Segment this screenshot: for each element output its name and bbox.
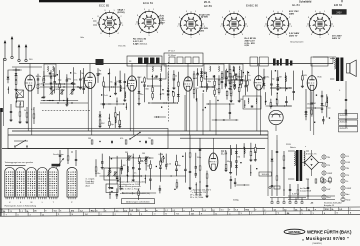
switch side parts — [59, 148, 78, 166]
tube socket top view Rö5 EL84 — [265, 11, 291, 35]
component chain lower x=8 — [8, 87, 9, 94]
tuner filter box 1 — [127, 56, 162, 66]
svg-text:3: 3 — [333, 26, 334, 28]
junction mark — [110, 96, 111, 97]
tube socket top view Rö2 ECH81 — [136, 9, 162, 33]
junction mark — [236, 78, 237, 79]
junction mark — [42, 97, 43, 98]
svg-text:4: 4 — [199, 34, 200, 36]
component chain x=16 — [15, 68, 18, 91]
bandfilter Fi1 — [44, 64, 56, 76]
svg-text:6: 6 — [225, 34, 226, 36]
component chain x=194 — [193, 71, 195, 99]
stage1 dashed line — [42, 110, 90, 112]
wire rung y=84 — [55, 83, 64, 85]
wire rung y=88 — [270, 87, 291, 89]
wire cathode Rö1b ECC85 — [87, 89, 89, 132]
svg-text:5: 5 — [319, 37, 320, 39]
svg-text:6,3V~: 6,3V~ — [292, 194, 298, 196]
svg-text:5: 5 — [148, 35, 149, 37]
component chain x=161 — [159, 73, 162, 100]
svg-text:5: 5 — [233, 37, 234, 39]
svg-text:70V: 70V — [232, 82, 236, 84]
tube Rö1b ECC85 — [84, 73, 95, 89]
svg-text:WERKE FÜRTH (BAY.): WERKE FÜRTH (BAY.) — [307, 229, 352, 234]
component chain x=122 — [120, 160, 123, 175]
chassis dashed divider — [168, 62, 170, 122]
wire cathode Rö3 EF89 — [185, 91, 187, 131]
FM osc box — [16, 101, 24, 107]
svg-text:6: 6 — [100, 33, 101, 35]
filter cap 1 — [321, 178, 324, 182]
component chain x=150 — [149, 160, 152, 189]
svg-text:9: 9 — [273, 11, 274, 13]
component chain x=174 — [172, 70, 175, 89]
svg-text:(EC92): (EC92) — [118, 12, 125, 14]
svg-text:90V: 90V — [195, 88, 199, 90]
bandfilter Fi4 — [229, 64, 243, 77]
terminal B7 Ant — [341, 192, 350, 196]
component chain lower x=285 — [285, 96, 288, 106]
bandfilter Fi2 — [147, 64, 166, 79]
component chain x=278 — [276, 70, 279, 91]
svg-text:2M: 2M — [126, 85, 129, 87]
antenna input 2 — [11, 36, 14, 59]
junction mark — [71, 83, 72, 84]
junction mark — [329, 117, 330, 118]
det box 2 — [259, 57, 268, 66]
component chain x=115 — [114, 107, 116, 128]
svg-text:Drucktasten: Drucktasten — [53, 153, 64, 156]
junction mark — [120, 90, 121, 91]
junction mark — [162, 89, 163, 90]
svg-text:Gesamtansicht: Gesamtansicht — [290, 40, 304, 43]
component index band — [0, 207, 360, 216]
svg-text:8: 8 — [179, 17, 180, 19]
svg-text:250V 7V: 250V 7V — [289, 35, 298, 37]
wire rung y=87 — [201, 86, 216, 88]
junction mark — [121, 188, 122, 189]
top right tick — [341, 0, 343, 2]
svg-text:6: 6 — [140, 32, 141, 34]
wire EL84 anode — [212, 138, 214, 153]
pin note block g — [289, 11, 299, 15]
svg-text:2M: 2M — [161, 93, 164, 95]
svg-text:1: 1 — [195, 11, 196, 13]
psu labels — [286, 144, 322, 161]
svg-text:7: 7 — [264, 26, 265, 28]
top supply bus — [19, 63, 333, 65]
terminal B8 Netz — [341, 197, 351, 201]
svg-text:2: 2 — [331, 17, 332, 19]
wire grid Rö3 EF89 — [189, 91, 191, 135]
svg-text:9: 9 — [315, 11, 316, 13]
junction mark — [240, 162, 241, 163]
DIN socket A6 Erd — [322, 195, 331, 199]
svg-text:8: 8 — [97, 16, 98, 18]
junction mark — [256, 168, 257, 169]
svg-text:UKW: UKW — [327, 173, 332, 175]
svg-text:0,5M: 0,5M — [159, 154, 164, 156]
svg-text:4: 4 — [286, 34, 287, 36]
pot box 2 parts — [111, 187, 113, 188]
component chain x=226 — [225, 69, 228, 86]
component chain lower x=278 — [276, 93, 278, 106]
svg-text:2M: 2M — [313, 103, 316, 105]
pin note block c — [133, 39, 147, 46]
heater tap row — [270, 198, 306, 204]
component chain x=110 — [108, 156, 111, 189]
svg-text:248V: 248V — [289, 12, 295, 15]
component chain x=166 — [165, 154, 168, 170]
junction mark — [141, 82, 142, 83]
wire rung y=104 — [206, 103, 234, 105]
component chain x=178 — [177, 72, 180, 102]
top edge scan bar — [39, 0, 105, 2]
svg-text:EL 84: EL 84 — [292, 3, 300, 7]
component chain x=185 — [184, 152, 187, 182]
svg-text:90V: 90V — [56, 89, 60, 91]
tube Rö5 EL84 — [209, 153, 218, 171]
component chain x=100 — [99, 111, 102, 128]
EL84 label — [221, 150, 228, 156]
svg-text:UKW: UKW — [346, 188, 351, 190]
wire rung y=80 — [231, 79, 244, 81]
pot treble — [159, 154, 165, 162]
output bus 1 — [180, 134, 268, 136]
terminal B3 TA — [341, 166, 349, 170]
pin note block j — [332, 36, 342, 40]
component chain x=226 — [224, 70, 227, 88]
svg-text:245V 1V: 245V 1V — [332, 37, 341, 40]
antenna input 4 — [25, 44, 28, 62]
FM mixer box — [16, 90, 24, 98]
junction mark — [72, 82, 73, 83]
svg-text:70V: 70V — [154, 78, 158, 80]
wire rung y=86 — [147, 85, 161, 87]
junction mark — [233, 70, 234, 71]
antenna input 1 — [4, 40, 7, 61]
component chain lower x=196 — [196, 182, 197, 195]
junction mark — [70, 72, 71, 73]
svg-text:8: 8 — [137, 15, 138, 17]
ratio detector filter — [243, 96, 261, 109]
junction mark — [174, 189, 175, 190]
left edge line — [0, 108, 2, 216]
junction mark — [230, 95, 231, 96]
junction mark — [108, 73, 109, 74]
svg-text:7: 7 — [135, 24, 136, 26]
filter cap 2 — [329, 178, 332, 182]
component chain x=235 — [233, 67, 236, 90]
svg-text:2: 2 — [245, 17, 246, 19]
svg-text:7: 7 — [177, 26, 178, 28]
long mid bus 1 — [12, 130, 268, 132]
wire anode Rö2 ECH81 — [131, 64, 133, 76]
tuner filter box 2 — [164, 53, 203, 66]
component chain x=73 — [72, 67, 75, 91]
wire rung y=70 — [8, 69, 16, 71]
svg-text:Änderungen vorbehalten: Änderungen vorbehalten — [126, 201, 150, 204]
svg-text:225V: 225V — [199, 31, 205, 33]
component chain x=327 — [326, 94, 328, 117]
svg-text:ECC 85: ECC 85 — [119, 46, 127, 48]
component chain lower x=139 — [138, 189, 140, 201]
component chain x=177 — [175, 155, 178, 176]
maker logo GRUNDIG — [284, 229, 305, 234]
junction mark — [117, 180, 118, 181]
fuse — [269, 186, 280, 189]
wire anode Rö4a EABC80 — [258, 64, 260, 76]
wire rung y=176 — [135, 175, 186, 177]
svg-text:( 5008/59 ): ( 5008/59 ) — [312, 243, 322, 245]
component chain lower x=231 — [230, 176, 233, 189]
junction mark — [163, 156, 164, 157]
speaker LS — [347, 60, 357, 77]
svg-text:„ Musikgerät 97/60 “: „ Musikgerät 97/60 “ — [302, 236, 349, 241]
svg-text:0,9V: 0,9V — [245, 45, 250, 47]
antenna input 3 — [18, 44, 21, 62]
pin note block b — [160, 16, 166, 25]
svg-text:12k: 12k — [82, 78, 85, 80]
stage1 pot row — [50, 90, 75, 95]
component chain lower x=122 — [120, 177, 121, 190]
socket pin numbers Rö3 — [177, 11, 204, 39]
svg-text:ECH 81: ECH 81 — [143, 1, 154, 5]
svg-text:ECC 85: ECC 85 — [99, 4, 110, 8]
svg-text:EM 84: EM 84 — [334, 3, 343, 7]
component chain x=98 — [97, 68, 100, 83]
component chain x=117 — [116, 156, 119, 184]
speaker area parts — [345, 100, 347, 121]
svg-text:Ausgabe 59: Ausgabe 59 — [324, 204, 334, 207]
wire grid Rö1b ECC85 — [91, 89, 93, 136]
left note block — [86, 179, 96, 188]
stage1 hrail a — [40, 86, 90, 87]
wire grid Rö2 ECH81 — [133, 91, 135, 135]
note paragraph — [119, 181, 146, 191]
pin note block i — [332, 9, 347, 14]
component chain lower x=117 — [116, 188, 119, 199]
junction mark — [286, 88, 287, 89]
socket pin numbers Rö4 — [220, 11, 247, 39]
component chain x=120 — [118, 111, 121, 128]
wire rung y=84 — [45, 83, 76, 85]
wire cathode Rö6 EM84 — [309, 90, 311, 131]
tube socket top view Rö4 EABC80 — [221, 11, 247, 35]
component chain lower x=236 — [234, 178, 237, 187]
DIN socket A2 TB — [322, 163, 331, 167]
svg-text:2M: 2M — [279, 76, 282, 78]
svg-text:kHz: kHz — [81, 37, 84, 39]
svg-text:8: 8 — [222, 17, 223, 19]
svg-text:*: * — [305, 146, 306, 149]
wire anode Rö3 EF89 — [187, 64, 189, 77]
junction mark — [203, 90, 204, 91]
junction mark — [161, 107, 162, 108]
legend star lines — [190, 189, 212, 200]
svg-text:u: u — [183, 210, 184, 212]
det cluster 1 — [273, 59, 282, 66]
component chain x=160 — [159, 153, 162, 182]
junction mark — [43, 84, 44, 85]
junction mark — [243, 72, 244, 73]
junction mark — [265, 101, 266, 102]
component chain x=196 — [195, 153, 198, 178]
junction mark — [314, 122, 315, 123]
phono switch contact — [14, 140, 28, 147]
component chain x=51 — [50, 70, 53, 90]
phono small labels — [88, 138, 151, 140]
svg-text:304.005: 304.005 — [262, 174, 270, 176]
junction mark — [276, 99, 277, 100]
em84 box — [311, 57, 328, 66]
junction mark — [152, 76, 153, 77]
junction mark — [195, 167, 196, 168]
wire rung y=106 — [266, 105, 292, 107]
svg-text:1: 1 — [282, 11, 283, 13]
component chain x=244 — [243, 143, 245, 158]
component chain x=201 — [200, 68, 203, 87]
output transformer — [330, 58, 343, 82]
feed blob — [0, 108, 3, 112]
piano key switch wafer S5 — [48, 167, 58, 199]
junction mark — [156, 166, 157, 167]
svg-text:9: 9 — [144, 9, 145, 11]
terminal B4 TB — [341, 173, 350, 177]
wire rung y=104 — [108, 103, 125, 105]
component chain lower x=177 — [176, 179, 178, 189]
component chain x=302 — [301, 70, 304, 87]
FM resistor row — [10, 104, 35, 124]
component chain x=246 — [244, 75, 247, 95]
junction mark — [182, 156, 183, 157]
svg-text:1: 1 — [153, 9, 154, 11]
component chain x=264 — [263, 69, 266, 90]
svg-text:8: 8 — [308, 17, 309, 19]
svg-text:2643-023: 2643-023 — [340, 128, 348, 130]
svg-text:6: 6 — [269, 34, 270, 36]
component chain lower x=160 — [159, 185, 162, 193]
wire grid Rö4a EABC80 — [260, 90, 262, 135]
component chain x=133 — [132, 154, 135, 182]
junction mark — [316, 95, 317, 96]
DIN socket A5 LW — [322, 187, 330, 191]
component chain x=102 — [101, 154, 104, 170]
tube socket top view Rö1 ECC85 — [97, 10, 123, 34]
component chain x=96 — [95, 159, 97, 176]
component chain x=226 — [225, 151, 228, 172]
component chain x=255 — [254, 144, 257, 162]
piano key switch wafer S6 — [67, 168, 77, 200]
switch header blob — [52, 164, 61, 167]
svg-text:3: 3 — [291, 26, 292, 28]
component chain x=146 — [145, 157, 147, 170]
right boxed label 3 — [339, 127, 358, 132]
junction mark — [57, 74, 58, 75]
svg-text:1,2V 85V: 1,2V 85V — [199, 17, 209, 19]
pot volume — [125, 152, 131, 160]
component chain lower x=251 — [250, 165, 251, 176]
svg-text:8: 8 — [266, 17, 267, 19]
socket pin numbers Rö2 — [135, 9, 162, 37]
svg-text:6: 6 — [182, 34, 183, 36]
svg-text:4: 4 — [242, 34, 243, 36]
component chain lower x=174 — [173, 91, 175, 103]
junction mark — [175, 164, 176, 165]
component chain lower x=226 — [226, 90, 228, 99]
svg-text:EABC 80: EABC 80 — [246, 4, 258, 8]
junction mark — [101, 94, 102, 95]
wire rung y=103 — [152, 102, 179, 104]
tuning indicator EM84 target — [269, 110, 283, 131]
stage1 hrail b — [40, 102, 88, 103]
terminal B5 Di — [341, 179, 349, 183]
wire rung y=70 — [13, 69, 22, 71]
junction mark — [277, 93, 278, 94]
psu bottom parts — [288, 179, 335, 200]
svg-text:55V: 55V — [101, 123, 105, 125]
primary parts — [271, 140, 286, 196]
svg-text:GRUNDIG: GRUNDIG — [289, 230, 301, 234]
component chain x=285 — [285, 72, 287, 91]
DIN socket A4 MW — [322, 179, 331, 183]
tube Rö4a EABC80 — [254, 76, 263, 90]
phono input box — [8, 129, 168, 149]
wire rung y=87 — [104, 86, 122, 88]
component chain lower x=322 — [322, 116, 325, 124]
FM bus segment — [12, 66, 42, 68]
piano key switch wafer S4 — [38, 167, 48, 199]
wire rung y=104 — [100, 103, 111, 105]
wire anode Rö6 EM84 — [311, 64, 313, 76]
component chain x=247 — [247, 71, 249, 92]
piano key switch wafer S3 — [27, 167, 37, 199]
svg-text:2643-002: 2643-002 — [340, 115, 348, 117]
dropper resistor — [315, 179, 317, 183]
output bus 2 — [180, 137, 268, 139]
switch pointer arrow — [56, 158, 64, 168]
wire cathode Rö1a ECC85 — [27, 91, 29, 131]
svg-text:3: 3 — [247, 26, 248, 28]
svg-text:245V: 245V — [336, 12, 342, 14]
component chain x=271 — [270, 70, 273, 95]
svg-text:1M: 1M — [142, 153, 145, 155]
wire grid Rö1a ECC85 — [31, 91, 33, 135]
stage4 long verticals — [185, 93, 217, 135]
svg-text:9: 9 — [104, 10, 105, 12]
component chain lower x=198 — [196, 89, 197, 101]
switch header bracket — [5, 164, 26, 166]
component chain x=198 — [196, 68, 199, 86]
tube Rö1a ECC85 — [25, 75, 35, 91]
wire rung y=100 — [41, 100, 54, 102]
junction mark — [275, 70, 276, 71]
svg-text:B 250 C 75: B 250 C 75 — [306, 153, 317, 155]
bandfilter Fi3 — [204, 64, 224, 79]
tuner blob left — [96, 59, 104, 65]
right boxed label 2 — [339, 120, 358, 125]
wire cathode Rö4a EABC80 — [256, 90, 258, 131]
component chain x=38 — [37, 74, 40, 94]
component chain x=294 — [292, 71, 295, 101]
svg-text:5: 5 — [277, 37, 278, 39]
svg-text:Plattenspieler, Tasten in Ru: Plattenspieler, Tasten in Ruhestellung — [5, 204, 37, 207]
svg-text:2: 2 — [289, 17, 290, 19]
tube Rö2 ECH81 — [127, 76, 136, 91]
switch diagonal — [129, 132, 140, 140]
svg-text:2k: 2k — [24, 110, 26, 112]
